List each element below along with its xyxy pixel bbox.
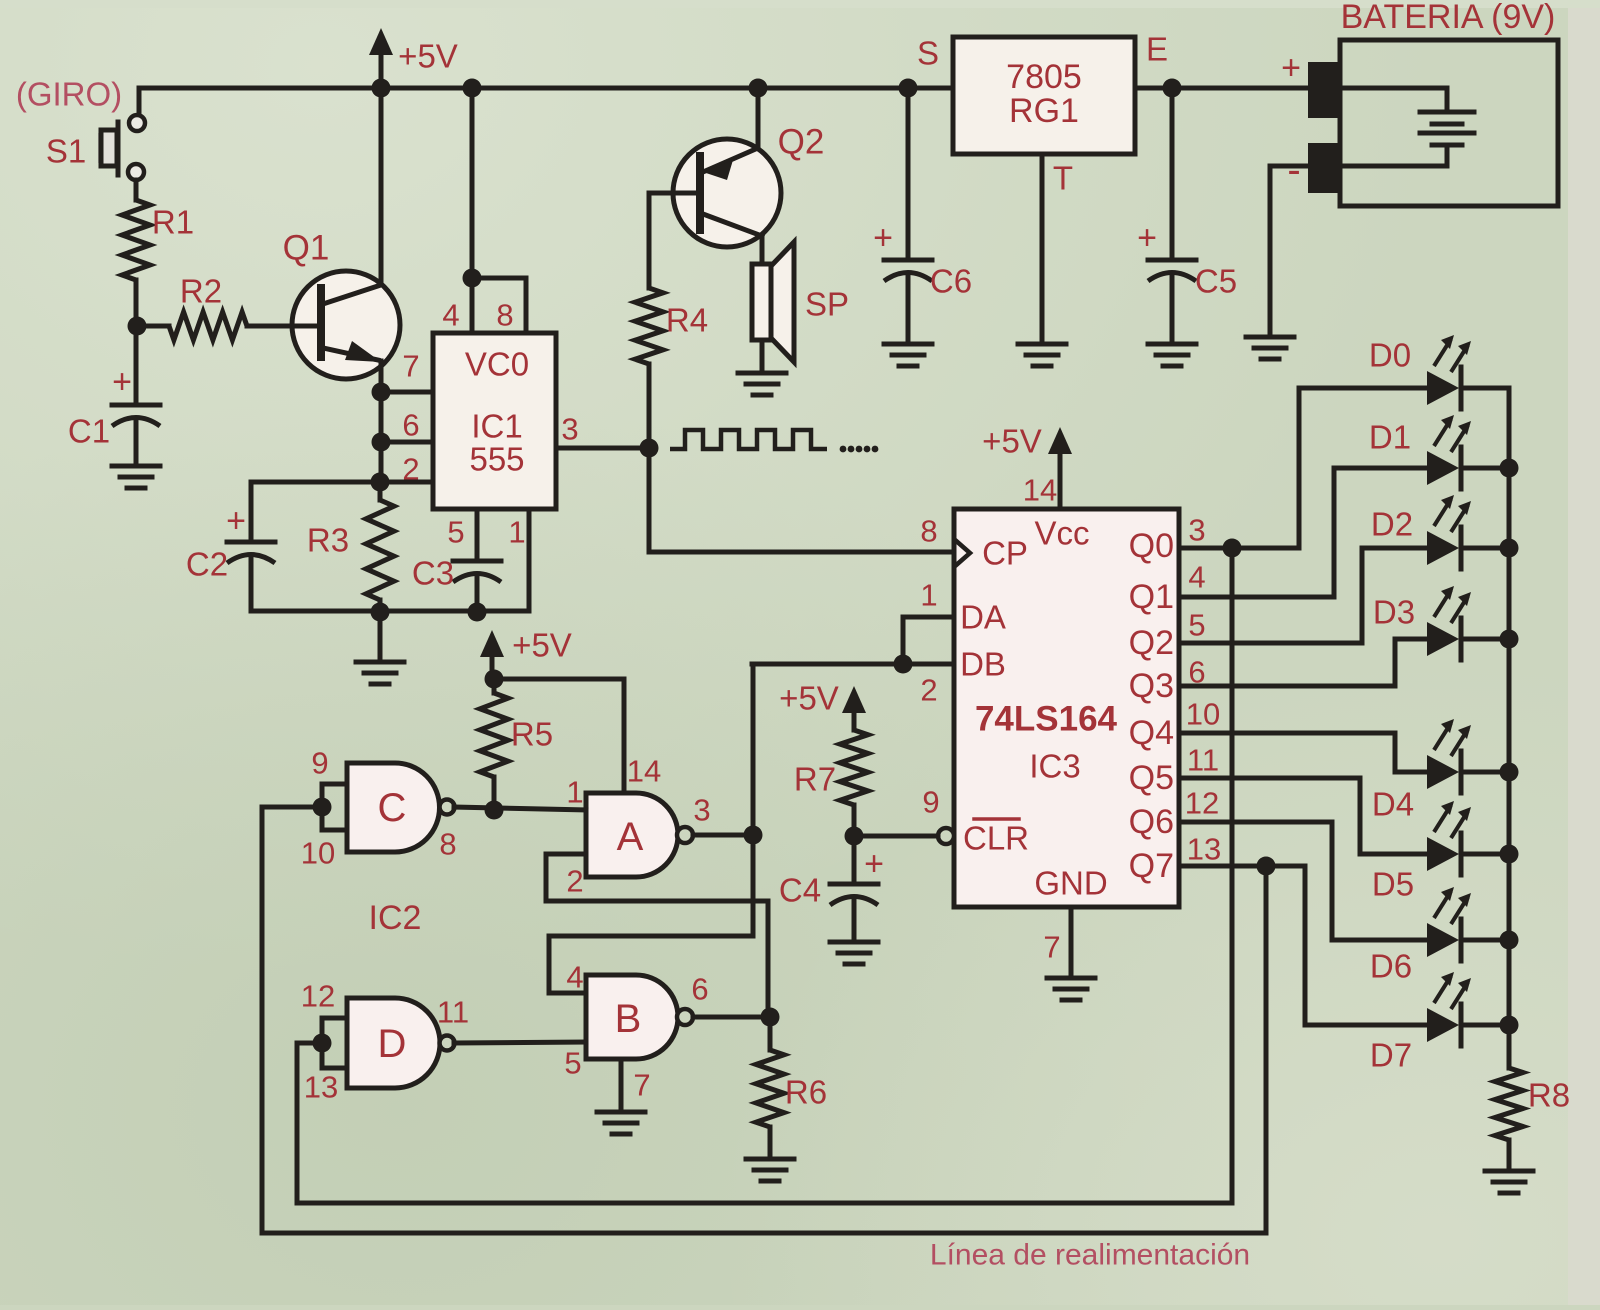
svg-text:B: B (615, 997, 642, 1041)
svg-text:D4: D4 (1372, 786, 1414, 823)
svg-text:8: 8 (439, 827, 456, 862)
svg-text:CLR: CLR (963, 820, 1029, 857)
svg-text:+5V: +5V (512, 627, 572, 664)
svg-text:12: 12 (301, 979, 335, 1014)
svg-text:7: 7 (633, 1068, 650, 1103)
svg-text:VC0: VC0 (465, 346, 529, 383)
svg-text:C3: C3 (412, 555, 454, 592)
svg-text:+: + (226, 502, 246, 540)
svg-text:9: 9 (922, 785, 939, 820)
svg-text:74LS164: 74LS164 (975, 700, 1118, 739)
svg-text:4: 4 (442, 298, 459, 333)
svg-text:IC3: IC3 (1029, 748, 1080, 785)
svg-text:11: 11 (437, 995, 469, 1030)
svg-text:12: 12 (1185, 786, 1219, 821)
svg-text:D7: D7 (1370, 1037, 1412, 1074)
svg-text:6: 6 (402, 408, 419, 443)
svg-text:GND: GND (1034, 865, 1107, 902)
svg-text:555: 555 (469, 441, 524, 478)
svg-text:11: 11 (1187, 743, 1219, 778)
svg-text:4: 4 (1188, 560, 1205, 595)
svg-text:+: + (112, 363, 132, 401)
svg-text:IC1: IC1 (471, 408, 522, 445)
svg-text:E: E (1146, 31, 1168, 68)
svg-text:DB: DB (960, 646, 1006, 683)
svg-text:8: 8 (920, 514, 937, 549)
svg-text:1: 1 (508, 515, 525, 550)
svg-text:R2: R2 (180, 273, 222, 310)
svg-text:D6: D6 (1370, 948, 1412, 985)
svg-text:D5: D5 (1372, 866, 1414, 903)
svg-text:R1: R1 (152, 204, 194, 241)
svg-text:Q1: Q1 (283, 229, 330, 268)
svg-text:C1: C1 (68, 413, 110, 450)
svg-text:Q5: Q5 (1129, 759, 1174, 797)
svg-text:RG1: RG1 (1009, 92, 1079, 130)
svg-text:S1: S1 (46, 133, 86, 170)
svg-text:R8: R8 (1528, 1077, 1570, 1114)
svg-text:R5: R5 (511, 716, 553, 753)
svg-text:Q6: Q6 (1129, 803, 1174, 841)
svg-text:D2: D2 (1371, 506, 1413, 543)
svg-text:Q3: Q3 (1129, 667, 1174, 705)
svg-text:10: 10 (1186, 697, 1220, 732)
svg-text:C2: C2 (186, 546, 228, 583)
svg-text:+: + (873, 219, 893, 257)
svg-text:-: - (1287, 148, 1300, 192)
svg-text:A: A (617, 815, 644, 859)
svg-text:C5: C5 (1195, 263, 1237, 300)
svg-text:Q4: Q4 (1129, 714, 1174, 752)
svg-text:T: T (1053, 160, 1073, 197)
svg-text:+: + (1281, 49, 1301, 87)
svg-text:IC2: IC2 (369, 899, 422, 937)
svg-text:Q2: Q2 (778, 123, 825, 162)
svg-text:3: 3 (1188, 513, 1205, 548)
svg-text:D0: D0 (1369, 337, 1411, 374)
svg-text:2: 2 (920, 673, 937, 708)
svg-text:5: 5 (564, 1046, 581, 1081)
svg-text:DA: DA (960, 599, 1006, 636)
svg-text:+: + (1137, 219, 1157, 257)
svg-text:R6: R6 (785, 1074, 827, 1111)
svg-text:D: D (378, 1022, 407, 1066)
svg-text:SP: SP (805, 286, 849, 323)
svg-text:Vcc: Vcc (1034, 515, 1089, 552)
svg-text:C6: C6 (930, 263, 972, 300)
svg-text:9: 9 (311, 746, 328, 781)
svg-text:8: 8 (496, 298, 513, 333)
svg-text:(GIRO): (GIRO) (16, 76, 122, 113)
svg-text:+5V: +5V (779, 680, 839, 717)
svg-text:3: 3 (693, 793, 710, 828)
svg-text:+5V: +5V (982, 423, 1042, 460)
svg-text:2: 2 (566, 864, 583, 899)
svg-text:R7: R7 (794, 761, 836, 798)
svg-text:1: 1 (566, 775, 583, 810)
svg-text:13: 13 (1187, 832, 1221, 867)
svg-text:2: 2 (402, 452, 419, 487)
svg-text:Q0: Q0 (1129, 527, 1174, 565)
svg-text:7805: 7805 (1006, 58, 1082, 96)
svg-text:CP: CP (982, 535, 1028, 572)
svg-text:7: 7 (1043, 930, 1060, 965)
svg-text:13: 13 (304, 1070, 338, 1105)
svg-text:5: 5 (1188, 608, 1205, 643)
svg-text:7: 7 (402, 349, 419, 384)
svg-text:BATERIA (9V): BATERIA (9V) (1341, 0, 1556, 36)
svg-text:C: C (378, 786, 407, 830)
svg-text:6: 6 (691, 972, 708, 1007)
svg-text:14: 14 (627, 754, 661, 789)
svg-text:R3: R3 (307, 522, 349, 559)
svg-text:5: 5 (447, 515, 464, 550)
svg-text:+5V: +5V (398, 38, 458, 75)
svg-text:D1: D1 (1369, 419, 1411, 456)
svg-text:+: + (864, 845, 884, 883)
svg-text:10: 10 (301, 836, 335, 871)
svg-text:Q1: Q1 (1129, 578, 1174, 616)
svg-text:1: 1 (920, 578, 937, 613)
svg-text:Q7: Q7 (1129, 847, 1174, 885)
svg-text:4: 4 (566, 960, 583, 995)
svg-text:C4: C4 (779, 872, 821, 909)
svg-text:R4: R4 (666, 302, 708, 339)
svg-text:3: 3 (561, 412, 578, 447)
svg-text:14: 14 (1023, 473, 1057, 508)
svg-text:Q2: Q2 (1129, 624, 1174, 662)
svg-text:S: S (917, 35, 939, 72)
svg-text:D3: D3 (1373, 594, 1415, 631)
svg-text:Línea de realimentación: Línea de realimentación (930, 1239, 1250, 1272)
